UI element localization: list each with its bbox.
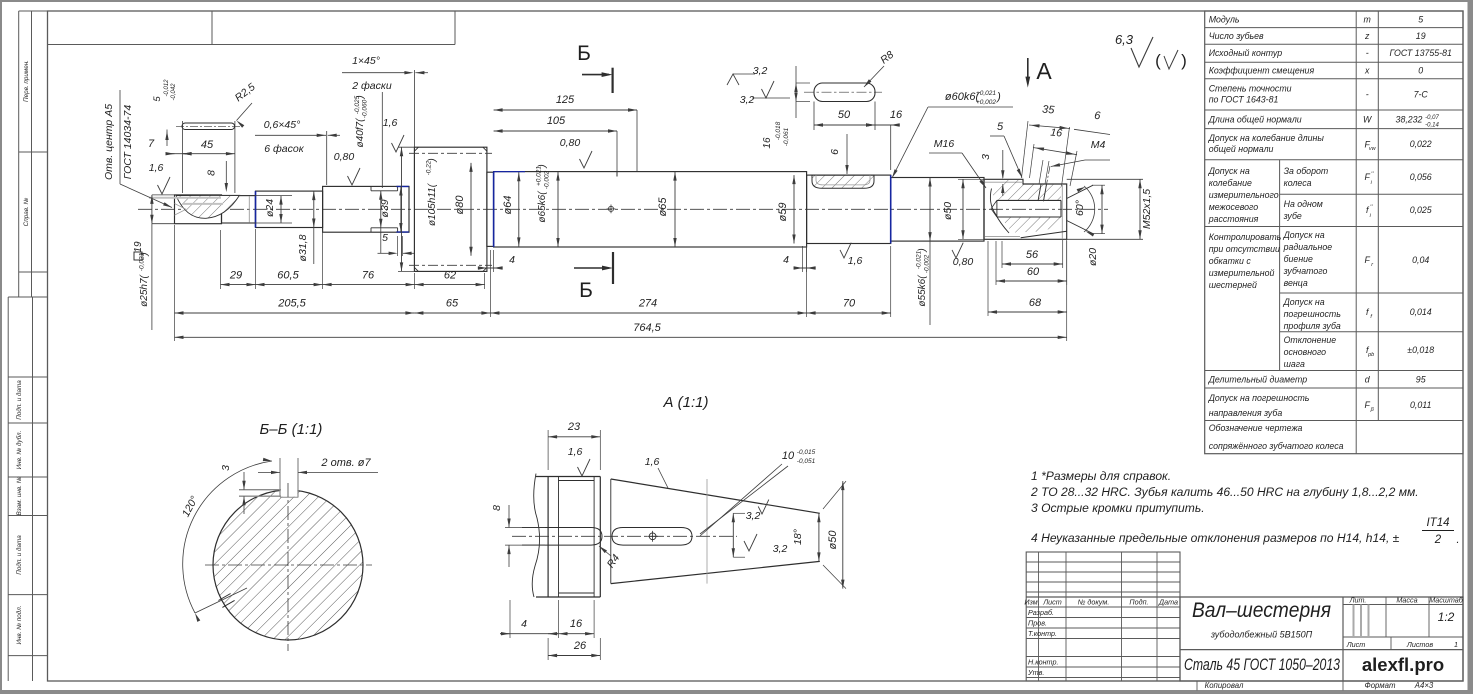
keyway runout slant line <box>1021 231 1067 237</box>
svg-text:10: 10 <box>782 450 795 462</box>
section B arrow bottom <box>574 267 609 269</box>
svg-text:4: 4 <box>509 254 515 266</box>
svg-text:шестерней: шестерней <box>1209 280 1257 290</box>
svg-text:по ГОСТ 1643-81: по ГОСТ 1643-81 <box>1209 94 1279 104</box>
svg-text:0,022: 0,022 <box>1410 139 1432 149</box>
svg-text:m: m <box>1364 14 1371 24</box>
detail A dim o50 <box>823 481 846 509</box>
svg-text:погрешность: погрешность <box>1284 309 1342 319</box>
svg-text:Исходный контур: Исходный контур <box>1209 48 1283 58</box>
svg-text:274: 274 <box>638 298 657 310</box>
svg-text:Взам. инв. №: Взам. инв. № <box>16 476 23 515</box>
svg-text:расстояния: расстояния <box>1208 214 1259 224</box>
svg-text:Т.контр.: Т.контр. <box>1028 629 1057 638</box>
B-B circle hatched <box>213 490 363 640</box>
svg-text:1,6: 1,6 <box>383 117 398 129</box>
svg-text:-0,051: -0,051 <box>797 458 816 465</box>
svg-text:19: 19 <box>1416 31 1426 41</box>
svg-text:А (1:1): А (1:1) <box>662 394 708 411</box>
svg-text:Лист: Лист <box>1042 598 1062 607</box>
svg-text:2 ТО 28...32 HRC. Зубья калит: 2 ТО 28...32 HRC. Зубья калить 46...50 H… <box>1030 485 1419 499</box>
svg-text:Допуск на: Допуск на <box>1283 230 1325 240</box>
svg-text:Копировал: Копировал <box>1205 681 1244 690</box>
svg-text:Отв. центр А5: Отв. центр А5 <box>103 104 115 180</box>
svg-text:Б–Б (1:1): Б–Б (1:1) <box>260 421 323 438</box>
svg-text:1,6: 1,6 <box>645 456 660 468</box>
svg-text:125: 125 <box>556 94 575 106</box>
svg-text:2: 2 <box>1434 534 1442 546</box>
svg-text:ø65k6(: ø65k6( <box>537 190 548 223</box>
svg-text:18°: 18° <box>792 529 804 545</box>
svg-text:Пров.: Пров. <box>1028 619 1047 628</box>
sheet edge left <box>0 0 2 691</box>
svg-text:alexfl.pro: alexfl.pro <box>1362 654 1444 675</box>
svg-text:А: А <box>1036 58 1052 84</box>
detail A dim 4 <box>500 633 558 635</box>
detail A keyway slot2 <box>612 528 692 546</box>
svg-text:95: 95 <box>1416 375 1426 385</box>
svg-text:1:2: 1:2 <box>1438 610 1455 624</box>
svg-text:ø65: ø65 <box>657 197 669 217</box>
blue groove collar lines <box>396 186 408 188</box>
svg-text:колебание: колебание <box>1209 178 1252 188</box>
svg-text:0,056: 0,056 <box>1410 172 1432 182</box>
svg-text:W: W <box>1363 114 1372 124</box>
svg-text:0,025: 0,025 <box>1410 205 1432 215</box>
svg-text:6 фасок: 6 фасок <box>264 143 304 155</box>
svg-text:70: 70 <box>843 298 856 310</box>
svg-text:29: 29 <box>229 270 242 282</box>
svg-text:0,80: 0,80 <box>334 151 355 163</box>
svg-text:Листов: Листов <box>1406 640 1433 649</box>
sheet edge bottom <box>0 690 1473 694</box>
svg-text:F: F <box>1365 400 1371 410</box>
svg-text:Вал–шестерня: Вал–шестерня <box>1192 598 1331 622</box>
svg-text:основного: основного <box>1284 347 1327 357</box>
svg-text:Б: Б <box>579 279 593 302</box>
svg-text:измерительного: измерительного <box>1209 190 1279 200</box>
svg-text:50: 50 <box>838 109 851 121</box>
svg-text:Допуск на колебание длины: Допуск на колебание длины <box>1208 133 1325 143</box>
svg-text:pb: pb <box>1367 352 1374 358</box>
svg-text:-0,042: -0,042 <box>171 83 177 101</box>
svg-text:(: ( <box>1155 51 1161 70</box>
svg-text:60°: 60° <box>1074 200 1086 216</box>
svg-text:зубодолбежный 5В150П: зубодолбежный 5В150П <box>1210 630 1313 640</box>
svg-text:0,04: 0,04 <box>1412 255 1429 265</box>
svg-text:Инв. № подл.: Инв. № подл. <box>15 605 23 644</box>
blue line neck <box>255 191 257 227</box>
title block grid <box>1026 552 1180 681</box>
journal chamfer line <box>248 196 250 223</box>
svg-text:ø105h11(: ø105h11( <box>427 182 438 226</box>
keyway pocket inner line <box>816 175 870 185</box>
svg-text:Лит.: Лит. <box>1349 596 1367 605</box>
dim 16 keyway2 <box>866 124 900 126</box>
svg-text:2 отв. ø7: 2 отв. ø7 <box>320 457 371 469</box>
svg-text:19: 19 <box>133 241 144 253</box>
svg-text:764,5: 764,5 <box>633 322 661 334</box>
svg-text:-0,002: -0,002 <box>544 170 551 189</box>
svg-text:при отсутствии: при отсутствии <box>1209 244 1280 254</box>
svg-text:x: x <box>1364 66 1370 76</box>
svg-text:5: 5 <box>152 96 163 102</box>
dim o39 <box>380 191 382 228</box>
dim o59 <box>793 175 795 243</box>
svg-text:ø50: ø50 <box>827 530 839 550</box>
svg-text:Подп. и дата: Подп. и дата <box>15 535 23 575</box>
svg-text:общей нормали: общей нормали <box>1209 144 1274 154</box>
svg-text:16: 16 <box>570 618 583 630</box>
svg-text:Число зубьев: Число зубьев <box>1209 31 1264 41</box>
ext line gear face up <box>413 70 415 147</box>
B-B hole 120deg <box>218 594 230 601</box>
shaft centerline <box>138 208 1108 210</box>
svg-text:3,2: 3,2 <box>773 543 788 555</box>
dim 56 <box>1001 241 1003 268</box>
svg-text:Формат: Формат <box>1365 681 1396 690</box>
svg-text:обкатки с: обкатки с <box>1209 256 1252 266</box>
dim 4 gear ring <box>478 267 503 269</box>
svg-text:-0,061: -0,061 <box>783 127 790 146</box>
svg-text:Длина общей нормали: Длина общей нормали <box>1208 114 1302 124</box>
svg-text:+0,002: +0,002 <box>976 99 996 106</box>
svg-text:0,80: 0,80 <box>560 137 581 149</box>
svg-text:35: 35 <box>1042 104 1056 117</box>
B-B centerlines <box>205 564 372 566</box>
svg-text:Допуск на погрешность: Допуск на погрешность <box>1208 393 1310 403</box>
dim o64 <box>518 172 520 246</box>
keyway1 plan view <box>182 123 235 130</box>
svg-text:38,232: 38,232 <box>1396 115 1423 125</box>
detail A dim 26 <box>548 655 600 657</box>
top-left document box <box>48 44 456 46</box>
svg-text:ГОСТ 13755-81: ГОСТ 13755-81 <box>1390 48 1452 58</box>
svg-text:ø39: ø39 <box>379 199 391 217</box>
svg-text:IT14: IT14 <box>1426 517 1449 529</box>
svg-text:8: 8 <box>491 505 503 511</box>
dim 105 <box>494 130 617 132</box>
svg-text:Степень точности: Степень точности <box>1209 83 1292 93</box>
svg-text:1,6: 1,6 <box>848 255 863 267</box>
svg-text:16: 16 <box>890 109 903 121</box>
svg-text:45: 45 <box>201 139 214 151</box>
detail A centerline <box>512 535 737 537</box>
svg-text:-0,002: -0,002 <box>924 254 931 273</box>
ext slant lines M4 <box>1022 121 1029 178</box>
svg-text:№ докум.: № докум. <box>1078 598 1110 607</box>
B-B keyway slot <box>279 458 281 497</box>
left margin bottom boxes <box>7 297 9 681</box>
svg-text:): ) <box>355 95 366 99</box>
svg-text:z: z <box>1364 31 1370 41</box>
svg-text:7: 7 <box>148 138 155 150</box>
keyway ghost lines <box>149 197 221 199</box>
section B center mark <box>608 206 613 211</box>
sheet edge right <box>1468 0 1473 694</box>
detail A center mark <box>649 533 656 540</box>
svg-text:-0,015: -0,015 <box>797 449 816 456</box>
section B arrow top <box>582 74 609 76</box>
svg-text:76: 76 <box>362 270 375 282</box>
svg-text:измерительной: измерительной <box>1209 268 1275 278</box>
svg-text:1 *Размеры для справок.: 1 *Размеры для справок. <box>1031 469 1171 483</box>
svg-text:vw: vw <box>1369 146 1377 152</box>
svg-text:венца: венца <box>1284 278 1308 288</box>
B-B keyway slot white <box>281 478 298 497</box>
svg-text:зубе: зубе <box>1283 211 1302 221</box>
bearing 105 tick <box>616 172 618 177</box>
svg-text:0,014: 0,014 <box>1410 307 1432 317</box>
svg-text:колеса: колеса <box>1284 178 1312 188</box>
svg-text:1×45°: 1×45° <box>352 55 380 67</box>
svg-text:105: 105 <box>547 115 566 127</box>
svg-text:Б: Б <box>577 42 591 65</box>
leader otv centr <box>120 184 172 208</box>
dim 764,5 <box>1066 241 1068 341</box>
svg-text:ø20: ø20 <box>1087 248 1099 266</box>
dim M52x1,5 <box>1067 178 1143 180</box>
dim o20 <box>1092 184 1105 186</box>
svg-text:межосевого: межосевого <box>1209 202 1259 212</box>
dim 7 <box>167 153 191 155</box>
svg-text:M16: M16 <box>934 138 955 150</box>
svg-text:60,5: 60,5 <box>277 270 299 282</box>
dim o105h11 <box>398 146 414 148</box>
svg-text:ø59: ø59 <box>777 203 789 222</box>
dim o80 <box>470 163 472 256</box>
svg-text:Модуль: Модуль <box>1209 14 1240 24</box>
svg-text:3,2: 3,2 <box>753 65 768 77</box>
dim o24 <box>222 195 293 197</box>
svg-text:): ) <box>1181 51 1187 70</box>
svg-text:направления зуба: направления зуба <box>1209 408 1283 418</box>
blue line o60k6 <box>890 175 892 243</box>
svg-text:Масштаб: Масштаб <box>1429 596 1464 605</box>
svg-text:3,2: 3,2 <box>740 94 755 106</box>
svg-text:23: 23 <box>567 421 581 433</box>
dim o65 <box>674 172 676 247</box>
svg-text:ø64: ø64 <box>502 196 514 215</box>
svg-text:16: 16 <box>1050 127 1063 140</box>
svg-text:0: 0 <box>1418 66 1423 76</box>
groove relief o39 <box>371 190 398 192</box>
dim o55k6 <box>929 178 931 242</box>
svg-text:-0,14: -0,14 <box>1425 123 1439 129</box>
dim 68 <box>987 241 989 316</box>
svg-text:5: 5 <box>382 232 388 244</box>
dim chain row2 <box>174 225 176 341</box>
view A arrow <box>1027 58 1029 84</box>
svg-text:За оборот: За оборот <box>1284 166 1329 176</box>
svg-text:62: 62 <box>444 270 456 282</box>
svg-text:): ) <box>537 164 548 168</box>
svg-text:ø31,8: ø31,8 <box>297 234 309 261</box>
svg-text:ø40f7(: ø40f7( <box>355 117 366 148</box>
M16 hole section <box>992 180 1062 201</box>
svg-text:4 Неуказанные предельные откл: 4 Неуказанные предельные отклонения разм… <box>1031 531 1400 545</box>
svg-text:Справ. №: Справ. № <box>23 198 30 227</box>
svg-text:3,2: 3,2 <box>746 510 761 522</box>
svg-text:26: 26 <box>573 640 587 652</box>
svg-text:ГОСТ 14034-74: ГОСТ 14034-74 <box>122 105 134 180</box>
shaft outline sections <box>175 195 222 224</box>
svg-text:-0,07: -0,07 <box>1425 115 1439 121</box>
svg-text:205,5: 205,5 <box>277 298 306 310</box>
svg-text:-: - <box>1366 89 1369 99</box>
svg-text:Утв.: Утв. <box>1027 668 1044 677</box>
svg-text:профиля зуба: профиля зуба <box>1284 321 1341 331</box>
svg-text:Инв. № дубл.: Инв. № дубл. <box>15 431 23 470</box>
svg-text:ø25h7(: ø25h7( <box>139 273 150 306</box>
B-B flat ledge <box>239 489 281 491</box>
svg-text:56: 56 <box>1026 249 1039 261</box>
svg-text:5: 5 <box>997 121 1004 133</box>
svg-text:16: 16 <box>762 137 773 149</box>
svg-text:На одном: На одном <box>1284 199 1323 209</box>
dim 45 keyway <box>182 121 184 193</box>
svg-text:F: F <box>1365 255 1371 265</box>
svg-text:-: - <box>1366 48 1369 58</box>
dim o31,8 <box>313 191 315 227</box>
svg-text:ø55k6(: ø55k6( <box>917 274 928 307</box>
svg-text:M52x1,5: M52x1,5 <box>1141 189 1153 229</box>
dim 125 <box>636 110 638 171</box>
svg-text:зубчатого: зубчатого <box>1283 266 1328 276</box>
dim 50 keyway2 <box>813 102 815 131</box>
svg-text:А4×3: А4×3 <box>1414 681 1434 690</box>
keyway pocket hatched <box>812 175 874 188</box>
left margin top boxes <box>18 11 20 297</box>
M4 hole slant lines <box>1038 185 1041 202</box>
svg-text:8: 8 <box>205 170 217 176</box>
svg-text:Сталь 45 ГОСТ 1050–2013: Сталь 45 ГОСТ 1050–2013 <box>1184 656 1341 674</box>
svg-text:Коэффициент смещения: Коэффициент смещения <box>1209 66 1315 76</box>
svg-text:+0,021: +0,021 <box>976 90 996 97</box>
svg-text:): ) <box>917 248 928 252</box>
svg-text:-0,021: -0,021 <box>916 250 923 269</box>
svg-text:3: 3 <box>220 465 232 471</box>
svg-text:Разраб.: Разраб. <box>1028 608 1054 617</box>
detail A dim 23 <box>547 430 549 470</box>
svg-text:ø50: ø50 <box>942 202 954 220</box>
dim o25h7 <box>152 194 175 196</box>
svg-text:ø24: ø24 <box>264 199 276 217</box>
svg-text:65: 65 <box>446 298 459 310</box>
sheet edge top <box>0 0 1473 2</box>
svg-text:Лист: Лист <box>1346 640 1366 649</box>
svg-text:Н.контр.: Н.контр. <box>1028 658 1058 667</box>
svg-text:5: 5 <box>1418 14 1423 24</box>
svg-text:-0,018: -0,018 <box>775 121 782 140</box>
center hole cone lines <box>175 204 187 210</box>
svg-text:4: 4 <box>783 254 789 266</box>
keyway2 plan view <box>814 83 875 102</box>
svg-text:-0,012: -0,012 <box>164 79 170 97</box>
svg-text:0,011: 0,011 <box>1410 400 1431 410</box>
svg-text:1,6: 1,6 <box>149 162 164 174</box>
gear table grid <box>1205 11 1463 454</box>
svg-text:3 Острые кромки притупить.: 3 Острые кромки притупить. <box>1031 501 1205 515</box>
detail A keyway slot1 <box>522 528 602 546</box>
ext line 382 <box>381 92 383 188</box>
svg-text:60: 60 <box>1027 266 1040 278</box>
dim o65k6 <box>557 172 559 247</box>
svg-text:1,6: 1,6 <box>568 446 583 458</box>
detail A dim 16 <box>559 633 595 635</box>
svg-text:-0,060: -0,060 <box>362 99 369 118</box>
svg-text:Изм.: Изм. <box>1024 598 1039 607</box>
svg-text:Дата: Дата <box>1158 598 1178 607</box>
gear chamfers <box>414 147 418 151</box>
svg-text:4: 4 <box>521 618 527 630</box>
dim o50 <box>958 178 986 180</box>
svg-text:1: 1 <box>1454 640 1458 649</box>
svg-text:±0,018: ±0,018 <box>1407 345 1434 355</box>
svg-text:.: . <box>1456 534 1459 546</box>
svg-text:Масса: Масса <box>1396 596 1417 605</box>
dim chain row1 <box>220 230 222 289</box>
svg-text:биение: биение <box>1284 254 1313 264</box>
ext line 326 <box>326 131 328 185</box>
svg-text:радиальное: радиальное <box>1283 242 1333 252</box>
svg-text:6: 6 <box>829 149 841 155</box>
svg-text:0,6×45°: 0,6×45° <box>264 119 301 131</box>
shaft right end stepped section <box>984 179 1067 239</box>
svg-text:Подп.: Подп. <box>1129 598 1148 607</box>
svg-text:Отклонение: Отклонение <box>1284 335 1337 345</box>
gear pitch lines <box>409 152 492 154</box>
countersink cone lines <box>1067 185 1093 198</box>
center hole section lens <box>176 195 240 218</box>
svg-text:Подп. и дата: Подп. и дата <box>15 380 23 420</box>
svg-text:сопряжённого зубчатого колеса: сопряжённого зубчатого колеса <box>1209 441 1344 451</box>
svg-text:7-С: 7-С <box>1414 89 1429 99</box>
svg-text:Обозначение чертежа: Обозначение чертежа <box>1209 423 1303 433</box>
M52 thread lines <box>985 181 1022 183</box>
svg-text:68: 68 <box>1029 297 1042 309</box>
dim 60 <box>995 241 997 285</box>
svg-text:Делительный диаметр: Делительный диаметр <box>1208 375 1308 385</box>
blue line bearing left <box>493 172 495 247</box>
svg-text:2 фаски: 2 фаски <box>351 80 392 92</box>
svg-text:Допуск на: Допуск на <box>1208 166 1250 176</box>
svg-text:M4: M4 <box>1091 139 1106 151</box>
svg-text:ø80: ø80 <box>454 195 466 215</box>
svg-text:Перв. примен.: Перв. примен. <box>23 60 30 102</box>
svg-text:шага: шага <box>1284 359 1305 369</box>
svg-text:Допуск на: Допуск на <box>1283 297 1325 307</box>
dim 4 groove right <box>794 267 816 269</box>
detail A outline <box>532 474 539 597</box>
svg-text:3: 3 <box>980 154 992 160</box>
svg-text:6,3: 6,3 <box>1115 32 1134 47</box>
svg-text:): ) <box>427 158 438 162</box>
svg-text:Контролировать: Контролировать <box>1209 232 1282 242</box>
